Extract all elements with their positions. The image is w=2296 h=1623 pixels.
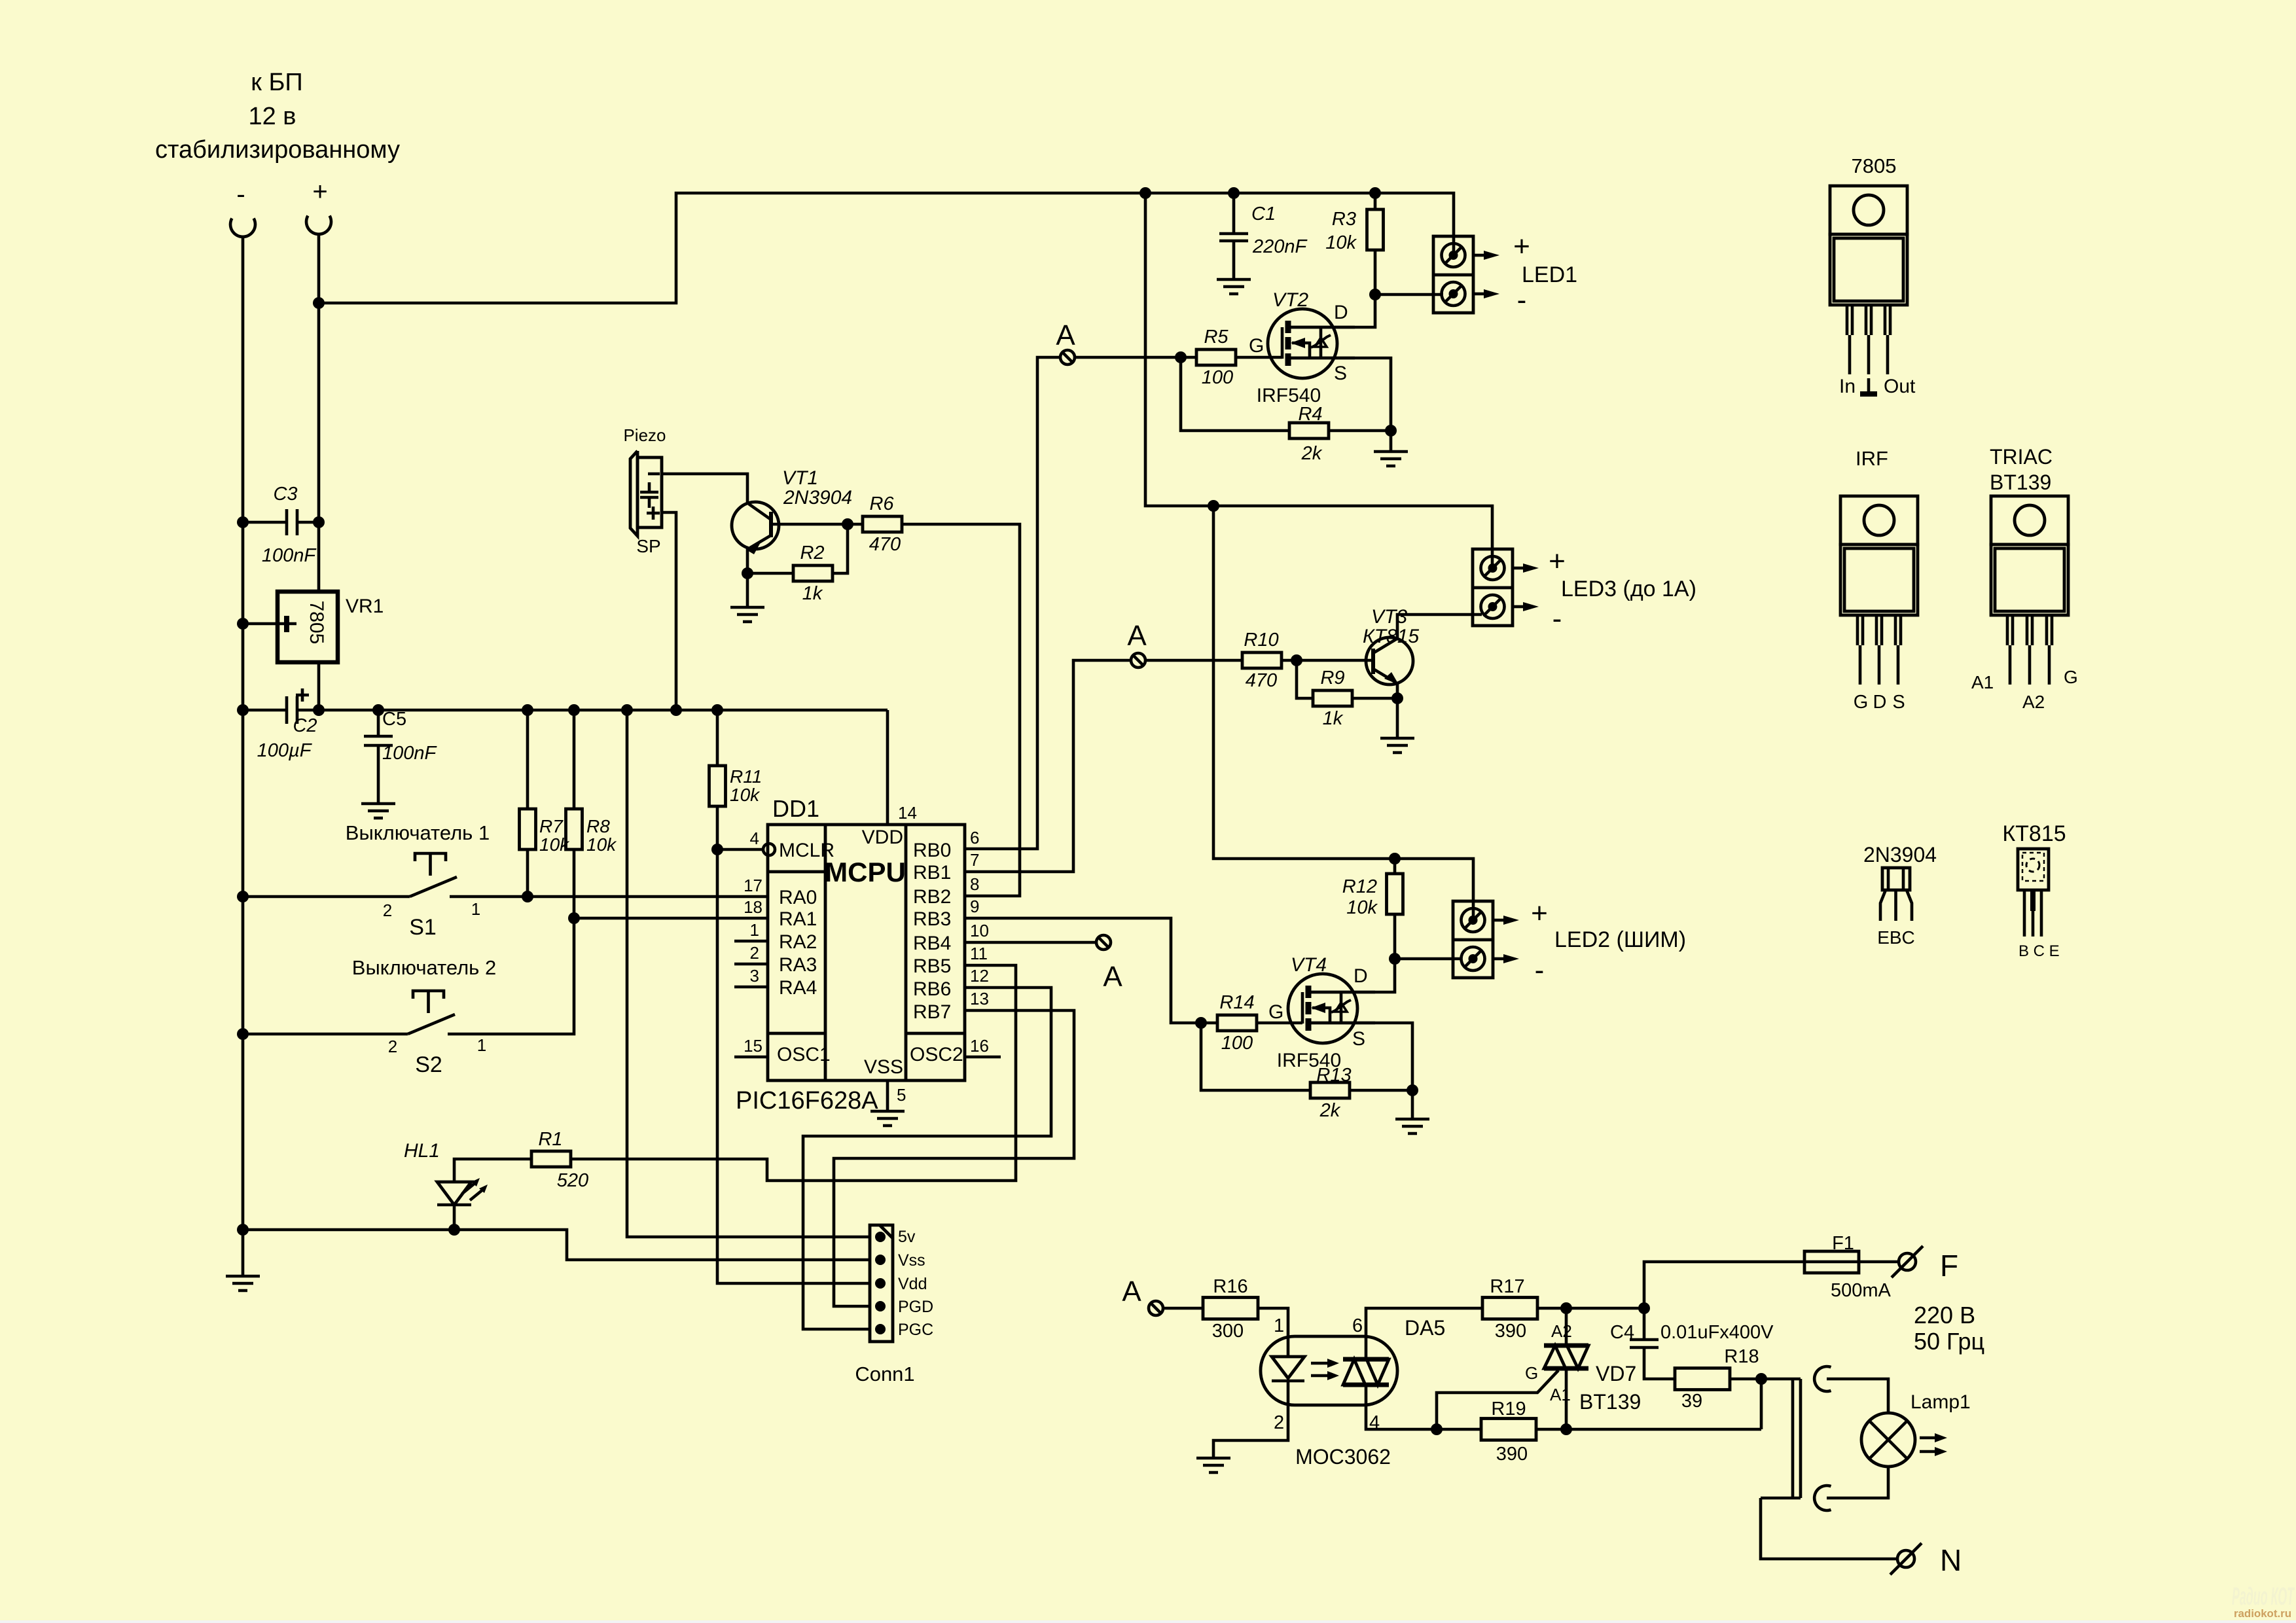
svg-text:MOC3062: MOC3062 [1295, 1445, 1391, 1469]
wire HL1 anode to R1 [454, 1159, 531, 1182]
resistor R13 2k [1310, 1065, 1352, 1121]
wire C4 node up to fuse F1 [1644, 1262, 1804, 1308]
svg-text:G: G [1525, 1363, 1538, 1383]
svg-text:A: A [1103, 961, 1122, 993]
svg-text:VR1: VR1 [346, 596, 384, 617]
svg-text:4: 4 [750, 829, 759, 848]
svg-text:S: S [1334, 363, 1347, 384]
svg-text:R10: R10 [1244, 630, 1278, 651]
wire RB6 to PGC [803, 988, 1051, 1329]
svg-text:R18: R18 [1724, 1346, 1759, 1367]
svg-text:TRIAC: TRIAC [1990, 445, 2053, 469]
wire triac gate [1437, 1370, 1558, 1429]
svg-text:A1: A1 [1971, 672, 1994, 692]
wire VT2 source ground stem [1390, 431, 1393, 452]
wire MOC pin2 to ground [1213, 1405, 1288, 1458]
junction [1389, 953, 1401, 965]
wire R7 top [526, 710, 529, 809]
wire R17 to triac A2 node [1537, 1307, 1566, 1310]
junction [1369, 187, 1381, 199]
wire R2 left [747, 572, 793, 575]
wire VT3 emitter to ground [1396, 683, 1399, 738]
svg-text:A2: A2 [1551, 1321, 1572, 1341]
svg-text:radiokot.ru: radiokot.ru [2234, 1607, 2291, 1620]
junction [1175, 351, 1187, 363]
junction [1195, 1017, 1207, 1029]
svg-text:Vss: Vss [898, 1251, 925, 1270]
svg-text:2: 2 [388, 1037, 397, 1056]
svg-text:КТ815: КТ815 [2002, 821, 2066, 846]
resistor R9 1k [1313, 668, 1352, 729]
svg-text:R2: R2 [800, 543, 824, 563]
wire R14 to VT4 gate [1257, 1022, 1302, 1025]
svg-text:+: + [312, 177, 327, 206]
svg-text:VDD: VDD [862, 827, 903, 848]
svg-text:5v: 5v [898, 1228, 916, 1246]
svg-text:D: D [1354, 965, 1368, 987]
resistor R8 10k [566, 809, 618, 855]
svg-text:300: 300 [1212, 1321, 1244, 1342]
svg-text:C5: C5 [382, 709, 406, 730]
wire R9 right [1352, 697, 1397, 700]
terminal block LED1 [1433, 236, 1499, 313]
wire R16 to MOC pin1 [1258, 1308, 1288, 1336]
svg-text:HL1: HL1 [404, 1140, 440, 1162]
svg-text:S2: S2 [415, 1052, 442, 1077]
svg-text:F: F [1940, 1249, 1958, 1283]
svg-text:F1: F1 [1832, 1233, 1854, 1254]
wire RB1 to node A2 [964, 660, 1131, 872]
svg-text:1k: 1k [1323, 708, 1344, 729]
svg-text:RB3: RB3 [913, 908, 951, 930]
ground (MOC pin2) [1196, 1458, 1230, 1472]
svg-text:1: 1 [471, 899, 480, 919]
wire R12 top [1393, 859, 1397, 874]
wire R3 top [1374, 193, 1377, 209]
svg-text:RA4: RA4 [779, 977, 817, 999]
transistor VT1 2N3904 [732, 467, 852, 554]
junction [1391, 692, 1403, 704]
resistor R1 520 [531, 1129, 588, 1191]
svg-text:VSS: VSS [864, 1056, 903, 1078]
wire RB7 to PGD [834, 1010, 1074, 1306]
svg-text:S: S [1892, 692, 1905, 713]
wire 12V branch to LED2 plus [1213, 506, 1473, 919]
junction [1385, 425, 1397, 437]
IC DD1 PIC16F628A [736, 795, 965, 1115]
svg-text:C4: C4 [1610, 1322, 1634, 1343]
junction [1407, 1084, 1418, 1096]
wire minus vertical rail [242, 237, 245, 1276]
svg-text:0.01uFx400V: 0.01uFx400V [1660, 1322, 1774, 1343]
wire S1 right to RA0 [450, 895, 768, 899]
package drawing 2N3904 (TO-92) [1863, 843, 1937, 948]
resistor R2 1k [793, 543, 833, 604]
capacitor C5 100nF [364, 709, 438, 804]
wire plus vertical to VR1 [317, 234, 321, 592]
svg-text:2: 2 [1274, 1412, 1284, 1433]
wire LED1 minus feed [1375, 293, 1443, 296]
svg-text:2N3904: 2N3904 [1863, 843, 1937, 866]
ground (VT3 emitter) [1380, 738, 1414, 753]
svg-text:C1: C1 [1251, 204, 1276, 224]
svg-text:R6: R6 [869, 493, 894, 514]
svg-text:IRF: IRF [1856, 447, 1888, 470]
svg-text:R12: R12 [1342, 876, 1377, 897]
svg-text:R8: R8 [586, 816, 610, 836]
svg-text:R19: R19 [1491, 1399, 1526, 1419]
svg-text:LED3 (до 1А): LED3 (до 1А) [1561, 577, 1696, 601]
junction [237, 618, 249, 630]
svg-text:7805: 7805 [1852, 154, 1897, 177]
wire S2 right riser to R8 [448, 849, 574, 1034]
wire C4 top stem [1643, 1308, 1646, 1340]
svg-text:LED2 (ШИМ): LED2 (ШИМ) [1554, 927, 1686, 952]
svg-text:DA5: DA5 [1405, 1316, 1445, 1340]
wire R10 to VT3 base [1281, 659, 1372, 662]
svg-text:12 в: 12 в [248, 103, 296, 130]
wire R18 node to plug top [1761, 1378, 1801, 1381]
junction [1560, 1302, 1572, 1314]
plug cable double line [1793, 1379, 1801, 1498]
junction [522, 704, 533, 716]
terminal N [1890, 1543, 1962, 1577]
package drawing TRIAC BT139 (TO-220) [1971, 445, 2078, 712]
wire A2 node to C4 node [1566, 1307, 1644, 1310]
resistor R6 470 [863, 493, 902, 555]
wire VT4 source [1310, 1023, 1412, 1090]
wire VT1 base to R6 [771, 523, 863, 526]
svg-text:OSC1: OSC1 [777, 1044, 831, 1065]
svg-text:BT139: BT139 [1990, 471, 2051, 494]
svg-text:1: 1 [750, 920, 759, 940]
svg-text:Lamp1: Lamp1 [1910, 1391, 1971, 1413]
wire OSC1 stub pin15 [734, 1056, 768, 1059]
svg-text:4: 4 [1369, 1412, 1380, 1433]
svg-text:A: A [1127, 620, 1147, 652]
wire +12V to top rail [319, 193, 1454, 303]
svg-text:100: 100 [1202, 367, 1233, 388]
svg-text:КТ815: КТ815 [1363, 626, 1419, 647]
ground (VT1 emitter) [730, 607, 764, 622]
svg-text:1: 1 [1274, 1315, 1284, 1336]
wire R18 node down to A1 rail [1760, 1379, 1763, 1429]
svg-text:Piezo: Piezo [623, 425, 666, 445]
wire RB0 to node A riser [964, 357, 1060, 849]
wire C3 row right [298, 521, 319, 524]
watermark [2232, 1583, 2295, 1620]
junction [1755, 1373, 1767, 1385]
wire S2 left [243, 1033, 408, 1036]
wire ground rail bottom [243, 1230, 870, 1260]
junction [621, 704, 633, 716]
svg-text:D: D [1334, 302, 1348, 323]
junction [568, 912, 580, 924]
transistor VT3 KT815 [1363, 606, 1419, 685]
svg-text:+: + [1513, 230, 1530, 262]
svg-text:In: In [1839, 376, 1856, 397]
svg-text:390: 390 [1495, 1321, 1526, 1342]
svg-text:IRF540: IRF540 [1277, 1050, 1341, 1071]
svg-text:G: G [1249, 335, 1264, 357]
svg-text:RB1: RB1 [913, 862, 951, 883]
junction [711, 844, 723, 855]
svg-text:220 В: 220 В [1914, 1302, 1975, 1329]
svg-text:R7: R7 [539, 816, 564, 836]
svg-text:RA1: RA1 [779, 908, 817, 930]
svg-text:R4: R4 [1298, 404, 1322, 425]
svg-text:16: 16 [970, 1036, 989, 1056]
node A (opto feed) [1122, 1275, 1163, 1315]
junction [237, 1224, 249, 1236]
voltage regulator VR1 7805 [278, 592, 384, 662]
svg-text:R1: R1 [538, 1129, 562, 1150]
svg-text:G: G [1854, 692, 1869, 713]
terminal minus (to PSU) [230, 219, 255, 237]
optocoupler DA5 MOC3062 [1261, 1315, 1445, 1469]
resistor R16 300 [1203, 1276, 1258, 1342]
wire R9 branch down [1297, 660, 1313, 698]
capacitor C3 100nF [262, 484, 317, 566]
ground (C1) [1217, 279, 1251, 294]
svg-text:2: 2 [750, 943, 759, 963]
connector Conn1 [855, 1225, 933, 1385]
wire RA4 stub pin3 [734, 986, 768, 989]
wire fuse to terminal F [1859, 1260, 1899, 1264]
svg-text:B C E: B C E [2018, 942, 2060, 960]
package drawing KT815 (TO-126) [2002, 821, 2066, 960]
junction [568, 704, 580, 716]
svg-text:7: 7 [970, 850, 979, 870]
svg-text:S1: S1 [409, 915, 437, 940]
svg-text:-: - [236, 180, 245, 209]
svg-text:PGD: PGD [898, 1298, 933, 1316]
svg-text:A2: A2 [2022, 692, 2045, 712]
svg-text:Out: Out [1884, 376, 1916, 397]
svg-text:6: 6 [1352, 1315, 1363, 1336]
wire node A2 to R10 [1145, 659, 1242, 662]
junction [1208, 500, 1219, 512]
svg-text:390: 390 [1496, 1444, 1528, 1465]
terminal F [1892, 1246, 1958, 1283]
wire VR1 common pin [243, 622, 278, 626]
svg-text:A1: A1 [1550, 1385, 1571, 1404]
svg-text:A: A [1122, 1275, 1141, 1308]
svg-text:EBC: EBC [1877, 927, 1915, 948]
socket contact bottom [1814, 1486, 1831, 1510]
wire R13 branch down [1201, 1023, 1310, 1090]
svg-text:Радио КОТ: Радио КОТ [2232, 1583, 2295, 1611]
junction [1560, 1423, 1572, 1435]
wire C3 row left [243, 521, 285, 524]
svg-text:14: 14 [898, 803, 917, 823]
wire +5V rail left [243, 709, 285, 712]
svg-text:2k: 2k [1319, 1100, 1341, 1121]
svg-text:11: 11 [970, 944, 988, 963]
svg-text:R17: R17 [1490, 1276, 1524, 1297]
resistor R5 100 [1196, 327, 1236, 388]
svg-text:15: 15 [744, 1036, 762, 1056]
switch S2 blade [408, 1014, 455, 1034]
resistor R11 10k [709, 766, 762, 806]
svg-text:50 Грц: 50 Грц [1914, 1328, 1984, 1355]
junction [237, 1028, 249, 1040]
junction [711, 704, 723, 716]
wire LED2 minus feed [1395, 957, 1462, 961]
svg-text:13: 13 [970, 989, 989, 1008]
package drawing IRF (TO-220) [1840, 447, 1918, 713]
svg-text:6: 6 [970, 828, 979, 847]
svg-text:RA2: RA2 [779, 931, 817, 953]
wire C4 bottom to R18 [1644, 1347, 1675, 1379]
resistor R17 390 [1482, 1276, 1537, 1342]
wire 5v programming feed [627, 710, 870, 1237]
wire VDD pin14 drop [886, 710, 889, 825]
wire S1 left [243, 895, 410, 899]
wire triac A1 [1565, 1368, 1568, 1429]
svg-text:-: - [1535, 954, 1545, 986]
svg-text:RB5: RB5 [913, 955, 951, 977]
svg-text:500mA: 500mA [1831, 1280, 1892, 1301]
resistor R3 10k [1325, 209, 1383, 253]
svg-text:1: 1 [477, 1035, 486, 1055]
svg-text:470: 470 [869, 534, 901, 555]
resistor R4 2k [1289, 404, 1329, 464]
terminal block LED2 [1453, 901, 1519, 978]
wire R7 bottom [526, 849, 529, 897]
junction [1369, 289, 1381, 300]
junction [448, 1224, 460, 1236]
svg-text:7805: 7805 [306, 601, 327, 645]
wire piezo plus to +5V rail [662, 512, 676, 710]
ground (VT2 source) [1374, 452, 1408, 466]
svg-text:Выключатель 2: Выключатель 2 [352, 956, 496, 979]
svg-text:PIC16F628A: PIC16F628A [736, 1087, 878, 1115]
wire to terminal N [1761, 1498, 1898, 1559]
svg-text:RB6: RB6 [913, 978, 951, 1000]
svg-text:10: 10 [970, 921, 989, 940]
svg-text:R3: R3 [1332, 209, 1356, 230]
svg-text:5: 5 [897, 1085, 906, 1105]
terminal block LED3 [1473, 549, 1539, 626]
wire triac A2 [1565, 1308, 1568, 1346]
svg-text:RB0: RB0 [913, 840, 951, 861]
svg-text:R5: R5 [1204, 327, 1229, 348]
switch S1 actuator bracket [415, 853, 446, 876]
svg-text:MCPU: MCPU [825, 857, 906, 887]
wire HL1 cathode [453, 1205, 456, 1230]
svg-text:1k: 1k [802, 583, 823, 604]
svg-text:17: 17 [744, 876, 762, 895]
junction [1139, 187, 1151, 199]
resistor R10 470 [1242, 630, 1282, 691]
svg-text:10k: 10k [1325, 232, 1357, 253]
wire plug bottom bar [1761, 1497, 1801, 1500]
svg-text:A: A [1056, 319, 1075, 351]
junction [313, 516, 325, 528]
svg-text:N: N [1940, 1543, 1962, 1577]
piezo speaker SP [623, 425, 666, 556]
wire RB5 to R1/HL1 [571, 965, 1016, 1181]
svg-text:SP: SP [636, 536, 660, 556]
wire R6 to RB2 [902, 524, 1020, 896]
svg-text:Vdd: Vdd [898, 1275, 927, 1293]
svg-text:10k: 10k [730, 785, 761, 805]
wire MCLR pin 4 [717, 848, 763, 851]
capacitor C1 220nF [1219, 204, 1308, 257]
ground (input rail) [226, 1276, 260, 1291]
svg-text:R9: R9 [1320, 668, 1344, 688]
svg-text:10k: 10k [586, 834, 617, 855]
junction [670, 704, 682, 716]
wire RA2 stub pin1 [734, 940, 768, 943]
junction [1431, 1423, 1443, 1435]
resistor R19 390 [1481, 1399, 1536, 1465]
node A (RB1) [1127, 620, 1147, 668]
svg-text:RB7: RB7 [913, 1001, 951, 1023]
resistor R7 10k [520, 809, 571, 855]
wire R2 right to base node [832, 524, 848, 573]
svg-text:9: 9 [970, 897, 979, 916]
svg-text:R16: R16 [1213, 1276, 1247, 1297]
wire VT2 drain to R3 node [1290, 294, 1375, 327]
svg-text:G: G [2064, 667, 2078, 687]
socket contact top [1814, 1366, 1831, 1391]
svg-text:VT4: VT4 [1291, 954, 1327, 976]
wire VT2 source [1290, 358, 1391, 431]
wire R5 to VT2 gate [1236, 356, 1282, 359]
svg-text:VT3: VT3 [1371, 606, 1407, 628]
transistor VT4 IRF540 [1288, 974, 1375, 1043]
wire RB3 to R14 [964, 918, 1217, 1023]
wire 12V branch to LED3 plus [1145, 193, 1492, 568]
svg-text:2N3904: 2N3904 [783, 487, 852, 508]
svg-text:BT139: BT139 [1579, 1390, 1641, 1414]
node +12V branch [313, 297, 325, 309]
package drawing 7805 (TO-220) [1830, 154, 1916, 397]
svg-text:OSC2: OSC2 [910, 1044, 963, 1065]
junction [1638, 1302, 1650, 1314]
fuse F1 500mA [1804, 1233, 1892, 1301]
ground (VT4 source) [1395, 1119, 1429, 1133]
wire +5V rail right [298, 709, 888, 712]
svg-text:100µF: 100µF [257, 740, 313, 761]
wire R11 bottom through MCLR node to Vdd pin [717, 806, 870, 1283]
svg-text:к БП: к БП [251, 69, 302, 96]
junction [1389, 853, 1401, 865]
wire socket to lamp top [1827, 1379, 1888, 1413]
wire MOC pin4 to A1 rail [1366, 1405, 1481, 1429]
wire piezo minus to VT1 collector [662, 474, 747, 503]
resistor R14 100 [1217, 992, 1257, 1054]
wire R8 top [573, 710, 576, 809]
switch S2 actuator bracket [413, 991, 444, 1013]
wire R13 right [1350, 1089, 1412, 1092]
svg-text:100nF: 100nF [262, 545, 317, 566]
capacitor C4 0.01uFx400V [1610, 1322, 1774, 1347]
svg-text:DD1: DD1 [772, 795, 819, 822]
svg-text:8: 8 [970, 874, 979, 894]
wire VSS pin5 ground stem [886, 1080, 889, 1111]
wire VT4 source ground stem [1411, 1090, 1414, 1119]
svg-text:LED1: LED1 [1522, 262, 1577, 287]
wire R12 bottom [1393, 914, 1397, 959]
svg-text:RB2: RB2 [913, 886, 951, 908]
node A (RB4) [1096, 935, 1122, 993]
svg-text:стабилизированному: стабилизированному [155, 136, 400, 164]
junction [237, 704, 249, 716]
junction [237, 891, 249, 902]
